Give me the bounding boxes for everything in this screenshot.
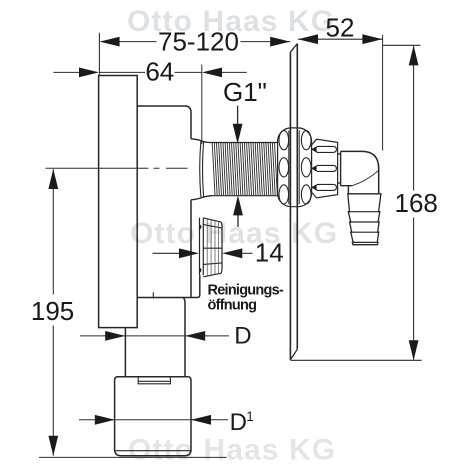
cleaning nut flange scallop top bbox=[200, 224, 202, 229]
arrow 14 left bbox=[179, 248, 199, 258]
neck bell arc bbox=[200, 141, 204, 197]
arrow 168 bottom bbox=[409, 340, 419, 360]
arrow 14 right bbox=[222, 248, 242, 258]
wall right line bbox=[296, 44, 298, 350]
socket box top notch bbox=[138, 377, 170, 384]
dim 52 line bbox=[298, 38, 383, 40]
dim 64 line bbox=[99, 71, 201, 73]
svg-text:195: 195 bbox=[31, 296, 74, 326]
wall bottom break diagonal bbox=[290, 349, 297, 360]
thread bottom edge bbox=[212, 195, 278, 197]
elbow outer outline bbox=[341, 151, 379, 193]
dim 75-120 extension line bbox=[98, 33, 100, 76]
thread top edge bbox=[212, 142, 278, 144]
hose nut slot wedge 1 bbox=[312, 147, 316, 151]
siphon front plate bbox=[99, 76, 138, 328]
arrow 75-120 right bbox=[270, 37, 290, 47]
dim D line bbox=[80, 335, 229, 337]
svg-text:Otto Haas KG: Otto Haas KG bbox=[130, 217, 338, 250]
arrow D1 left bbox=[95, 415, 115, 425]
svg-text:52: 52 bbox=[326, 13, 355, 43]
arrow 64 right bbox=[202, 68, 222, 78]
siphon body right edge lower bbox=[190, 200, 192, 298]
arrow 195 top bbox=[48, 169, 58, 189]
arrow G1 up bbox=[233, 195, 243, 215]
thread hatching G1 bbox=[212, 143, 277, 195]
rosette scallop ellipses left column bbox=[279, 131, 289, 204]
svg-text:75-120: 75-120 bbox=[158, 26, 239, 56]
svg-text:168: 168 bbox=[395, 188, 438, 218]
svg-text:G1": G1" bbox=[223, 77, 267, 107]
arrow 52 right bbox=[362, 34, 382, 44]
hose barb outline bbox=[348, 194, 381, 245]
dim 195 vertical line bbox=[52, 169, 54, 455]
svg-text:D: D bbox=[234, 323, 251, 350]
dim D1 line bbox=[79, 419, 228, 421]
arrow 64 left bbox=[79, 68, 99, 78]
socket box bottom seam line bbox=[116, 450, 191, 452]
dim 75-120 line bbox=[101, 41, 290, 43]
dim 195 bottom extension line bbox=[39, 456, 227, 458]
G1 arrow down stem bbox=[237, 106, 239, 124]
tick on body bottom edge bbox=[152, 292, 154, 298]
arrow D1 right bbox=[191, 415, 211, 425]
arrow 75-120 left bbox=[100, 37, 120, 47]
outlet neck top curve bbox=[191, 139, 212, 143]
rosette scallop ellipses right column bbox=[301, 131, 311, 204]
hose nut slot wedge 3 bbox=[312, 185, 316, 189]
arrow 52 left bbox=[298, 34, 318, 44]
dim 64 right extension line bbox=[201, 65, 203, 145]
dim 52 right extension line bbox=[382, 35, 384, 151]
ribbed hose nut outline bbox=[310, 139, 337, 198]
arrow G1 down bbox=[233, 124, 243, 144]
siphon body bottom edge and cleaning tube bbox=[137, 275, 200, 297]
outlet neck bottom curve bbox=[191, 196, 212, 200]
dim 64 tail right bbox=[222, 71, 247, 73]
socket box outline bbox=[115, 377, 191, 456]
svg-text:64: 64 bbox=[145, 57, 174, 87]
elbow left edge bbox=[341, 151, 352, 193]
centerline through body bbox=[46, 167, 188, 169]
hose nut slot 3 bbox=[312, 184, 336, 190]
arrow 168 top bbox=[409, 45, 419, 65]
cleaning nut knurl vertical lines bbox=[207, 219, 218, 276]
cleaning nut cap outline bbox=[203, 218, 222, 277]
cleaning nut flange lines bbox=[200, 218, 204, 276]
siphon main body top edge bbox=[137, 106, 191, 139]
cleaning nut cap rib lines bbox=[203, 225, 222, 265]
svg-text:Reinigungs-: Reinigungs- bbox=[208, 283, 284, 299]
arrow 195 bottom bbox=[48, 436, 58, 456]
hose barb ridge lines bbox=[350, 212, 379, 243]
arrow D right bbox=[185, 331, 205, 341]
dim 168 bottom extension line bbox=[290, 359, 421, 361]
G1 arrow up stem bbox=[237, 215, 239, 227]
svg-text:D: D bbox=[230, 409, 247, 436]
rosette flange outline bbox=[278, 128, 312, 207]
cleaning nut flange scallop bottom bbox=[200, 268, 202, 273]
dim 168 top extension line bbox=[383, 44, 421, 46]
dim 64 tail left bbox=[53, 71, 80, 73]
hose nut slot 2 bbox=[312, 165, 336, 171]
wall top break diagonal bbox=[290, 44, 297, 53]
hose nut slot 1 bbox=[312, 146, 336, 152]
rosette disc inner edge lines bbox=[289, 131, 299, 205]
dim 168 vertical line bbox=[413, 46, 415, 360]
hose nut slot wedge 2 bbox=[312, 166, 316, 170]
pipe left edge bbox=[124, 328, 126, 377]
elbow inner shading line bbox=[352, 170, 379, 186]
svg-text:öffnung: öffnung bbox=[208, 297, 257, 313]
arrow D left bbox=[105, 331, 125, 341]
wall left line bbox=[289, 52, 291, 360]
dim 14 tail right bbox=[242, 252, 252, 254]
dim 14 tail left bbox=[153, 252, 181, 254]
svg-text:1: 1 bbox=[246, 409, 254, 424]
svg-text:14: 14 bbox=[255, 238, 284, 268]
nut to elbow connector lines bbox=[338, 154, 341, 183]
pipe right edge bbox=[183, 298, 185, 377]
